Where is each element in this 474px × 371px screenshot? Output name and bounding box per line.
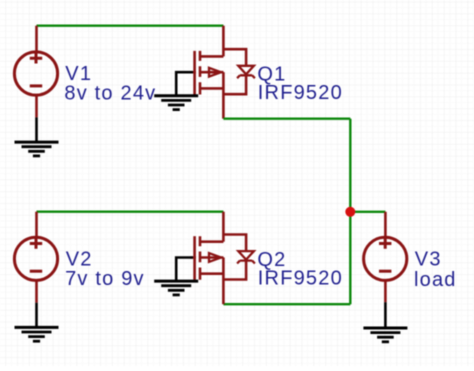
wire xyxy=(349,119,351,305)
wire xyxy=(223,303,350,305)
voltage source V3 xyxy=(364,212,407,302)
gate bar of Q1 xyxy=(193,51,196,95)
wire xyxy=(176,258,193,282)
source stub of Q2 xyxy=(200,272,223,275)
wire xyxy=(37,210,224,212)
transistor Q2 xyxy=(190,212,255,305)
transistor Q1 xyxy=(190,26,255,119)
drain stub and drain pin of Q1 xyxy=(200,55,223,58)
gate bar of Q2 xyxy=(193,236,196,280)
negative pin of V2 xyxy=(35,280,38,302)
svg-text:8v to 24v: 8v to 24v xyxy=(64,83,156,105)
minus mark xyxy=(30,270,42,273)
bulk stub of Q2 xyxy=(200,256,223,259)
minus mark xyxy=(30,84,42,87)
body diode of Q2 xyxy=(223,235,246,251)
ground xyxy=(154,281,198,295)
gate pin of Q2 xyxy=(190,256,196,258)
svg-text:V3: V3 xyxy=(415,249,442,271)
wire xyxy=(350,211,385,213)
body circle of V2 xyxy=(14,237,57,280)
svg-text:IRF9520: IRF9520 xyxy=(258,82,343,104)
wire xyxy=(223,117,350,119)
positive pin of V2 xyxy=(35,212,38,238)
source rail and source pin of Q1 xyxy=(222,72,225,119)
body circle of V3 xyxy=(364,237,407,280)
body circle of V1 xyxy=(14,52,57,95)
ground xyxy=(15,303,59,341)
wire xyxy=(176,72,193,96)
channel dashes of Q2 xyxy=(199,236,202,280)
voltage source V1 xyxy=(14,26,57,118)
positive pin of V3 xyxy=(384,212,387,238)
gate pin of Q1 xyxy=(190,71,196,73)
plus mark xyxy=(30,238,42,249)
negative pin of V3 xyxy=(384,280,387,302)
plus mark xyxy=(379,238,391,249)
plus mark xyxy=(30,53,42,64)
drain stub and drain pin of Q2 xyxy=(200,240,223,243)
positive pin of V1 xyxy=(35,26,38,52)
body diode of Q1 xyxy=(223,49,246,65)
svg-text:7v to 9v: 7v to 9v xyxy=(65,268,145,290)
minus mark xyxy=(379,270,391,273)
ground xyxy=(363,302,407,342)
negative pin of V1 xyxy=(35,95,38,117)
junction node xyxy=(345,207,355,217)
source stub of Q1 xyxy=(200,87,223,90)
svg-text:IRF9520: IRF9520 xyxy=(258,268,343,290)
source rail and source pin of Q2 xyxy=(222,258,225,305)
wire xyxy=(37,25,224,27)
P-channel arrow of Q2 xyxy=(209,253,221,262)
ground xyxy=(15,117,59,156)
ground xyxy=(154,96,198,110)
bulk stub of Q1 xyxy=(200,71,223,74)
voltage source V2 xyxy=(14,212,57,303)
svg-text:load: load xyxy=(414,269,457,291)
P-channel arrow of Q1 xyxy=(209,68,221,77)
channel dashes of Q1 xyxy=(199,51,202,95)
